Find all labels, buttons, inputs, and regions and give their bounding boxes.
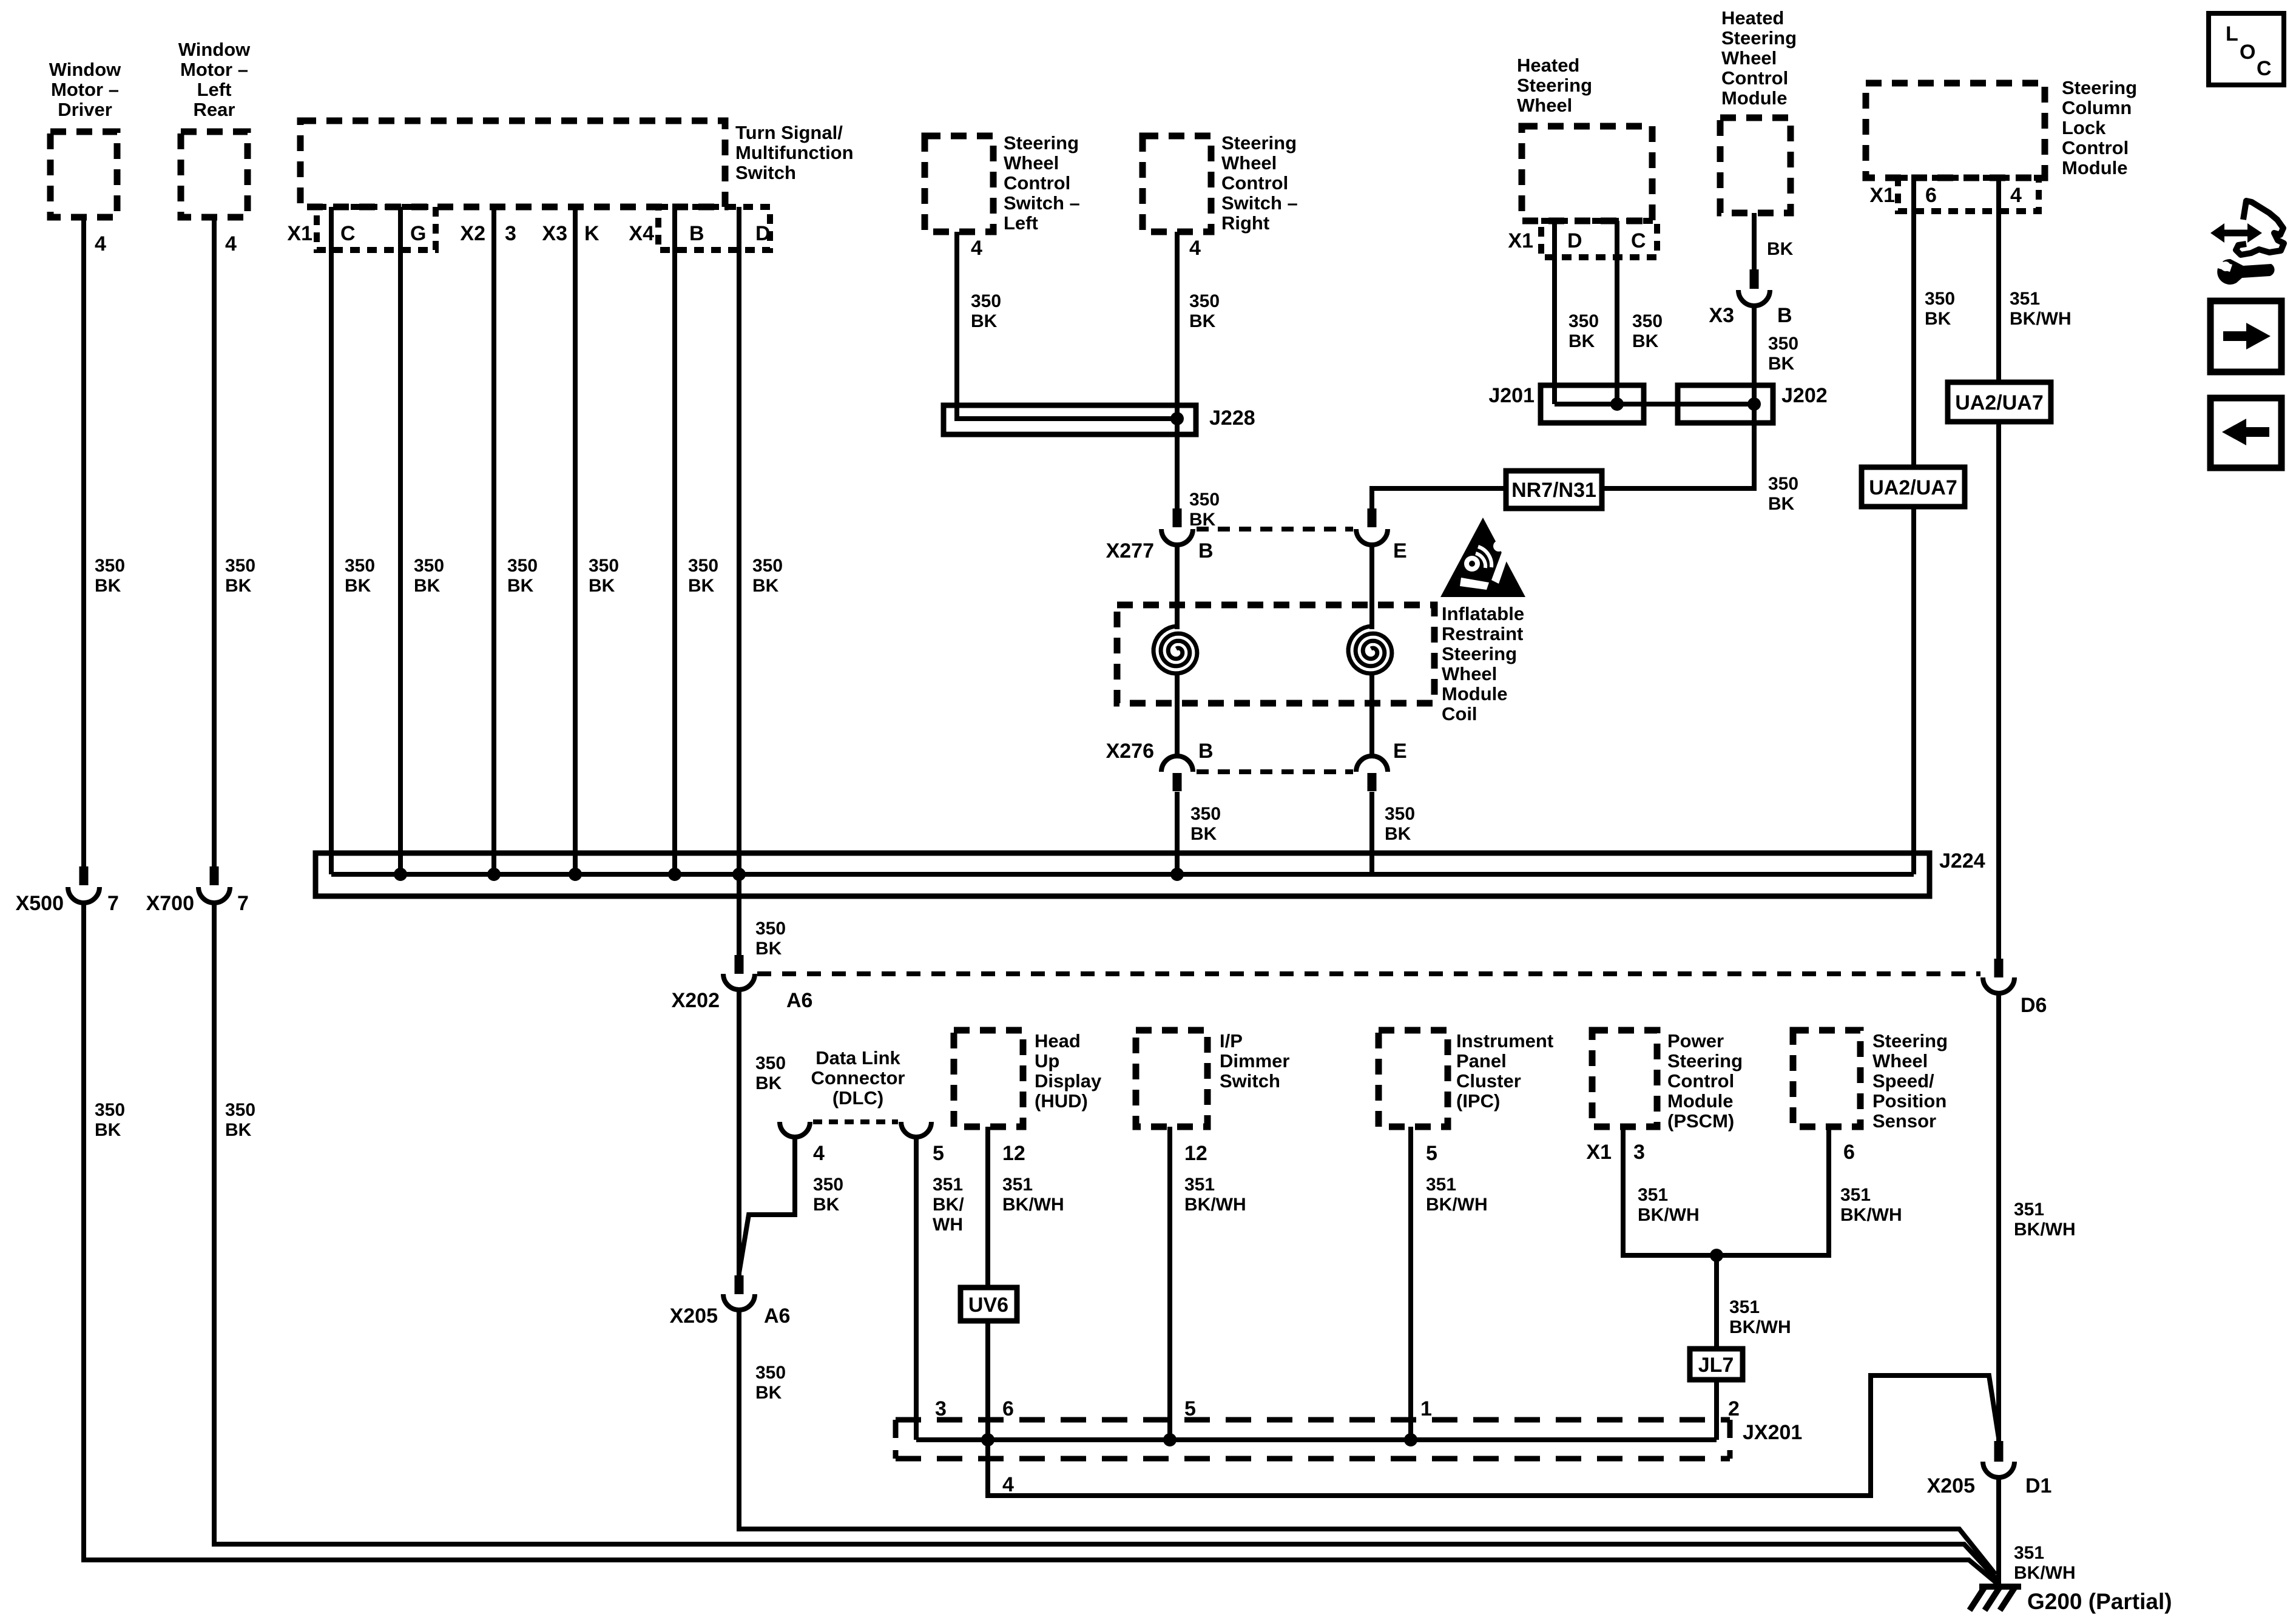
svg-text:X276: X276 — [1106, 740, 1154, 763]
svg-text:E: E — [1393, 740, 1407, 763]
svg-text:BK: BK — [95, 1120, 121, 1140]
svg-text:351: 351 — [1840, 1185, 1871, 1205]
svg-text:BK/WH: BK/WH — [1002, 1195, 1064, 1215]
svg-text:Sensor: Sensor — [1872, 1110, 1936, 1132]
svg-text:(DLC): (DLC) — [832, 1087, 883, 1109]
svg-text:2: 2 — [1728, 1397, 1740, 1420]
svg-text:X500: X500 — [16, 892, 64, 915]
svg-text:Column: Column — [2062, 97, 2132, 118]
svg-text:4: 4 — [1189, 237, 1201, 260]
svg-text:Window: Window — [49, 59, 121, 80]
svg-text:B: B — [1198, 740, 1214, 763]
svg-text:UV6: UV6 — [968, 1294, 1008, 1317]
svg-text:X205: X205 — [670, 1304, 718, 1328]
svg-text:350: 350 — [225, 1100, 255, 1120]
svg-text:Rear: Rear — [194, 99, 235, 120]
svg-text:BK: BK — [414, 576, 441, 596]
svg-text:B: B — [689, 222, 704, 245]
svg-text:X3: X3 — [542, 222, 567, 245]
svg-text:350: 350 — [414, 556, 444, 576]
svg-text:(PSCM): (PSCM) — [1667, 1110, 1734, 1132]
svg-text:Panel: Panel — [1456, 1050, 1507, 1072]
svg-text:BK: BK — [688, 576, 715, 596]
svg-text:Head: Head — [1035, 1030, 1081, 1051]
svg-text:Instrument: Instrument — [1456, 1030, 1553, 1051]
svg-text:350: 350 — [971, 291, 1001, 311]
svg-text:350: 350 — [1190, 804, 1221, 824]
svg-text:Module: Module — [2062, 157, 2128, 178]
svg-text:BK/WH: BK/WH — [2014, 1563, 2076, 1583]
svg-text:Connector: Connector — [811, 1067, 905, 1088]
svg-text:BK: BK — [813, 1195, 840, 1215]
svg-text:350: 350 — [755, 919, 786, 939]
svg-text:Multifunction: Multifunction — [735, 142, 854, 163]
svg-text:BK: BK — [755, 939, 782, 959]
svg-text:X205: X205 — [1927, 1474, 1975, 1497]
svg-text:351: 351 — [1426, 1175, 1456, 1195]
svg-text:6: 6 — [1002, 1397, 1014, 1420]
svg-text:351: 351 — [1638, 1185, 1668, 1205]
svg-text:Control: Control — [1221, 172, 1288, 194]
svg-text:4: 4 — [971, 237, 982, 260]
svg-text:Display: Display — [1035, 1070, 1102, 1092]
svg-text:BK: BK — [1190, 824, 1217, 844]
svg-text:X1: X1 — [287, 222, 312, 245]
svg-text:350: 350 — [1385, 804, 1415, 824]
svg-text:X277: X277 — [1106, 539, 1154, 562]
svg-text:J202: J202 — [1781, 384, 1828, 407]
svg-text:WH: WH — [933, 1215, 963, 1235]
svg-text:Lock: Lock — [2062, 117, 2106, 138]
svg-text:Inflatable: Inflatable — [1442, 603, 1524, 624]
svg-text:Position: Position — [1872, 1090, 1947, 1112]
svg-text:BK/WH: BK/WH — [1184, 1195, 1246, 1215]
svg-text:BK: BK — [971, 311, 998, 331]
svg-text:J201: J201 — [1488, 384, 1535, 407]
svg-text:Wheel: Wheel — [1221, 152, 1277, 174]
svg-text:Module: Module — [1442, 683, 1508, 704]
svg-text:G: G — [410, 222, 426, 245]
svg-text:L: L — [2226, 22, 2238, 46]
svg-text:D: D — [1567, 229, 1582, 252]
svg-text:Motor –: Motor – — [180, 59, 248, 80]
svg-text:Power: Power — [1667, 1030, 1724, 1051]
svg-text:E: E — [1393, 539, 1407, 562]
svg-text:BK: BK — [1385, 824, 1411, 844]
svg-text:A6: A6 — [764, 1304, 790, 1328]
svg-text:C: C — [340, 222, 356, 245]
svg-text:BK: BK — [507, 576, 534, 596]
svg-text:BK: BK — [1768, 494, 1795, 514]
svg-text:Module: Module — [1721, 87, 1788, 109]
svg-text:J224: J224 — [1939, 849, 1985, 872]
svg-text:BK: BK — [755, 1073, 782, 1093]
svg-text:J228: J228 — [1209, 407, 1255, 430]
svg-text:351: 351 — [933, 1175, 963, 1195]
svg-text:Control: Control — [1667, 1070, 1734, 1092]
svg-text:350: 350 — [95, 556, 125, 576]
svg-text:350: 350 — [755, 1363, 786, 1383]
svg-text:350: 350 — [752, 556, 783, 576]
svg-text:(HUD): (HUD) — [1035, 1090, 1088, 1112]
svg-text:Steering: Steering — [1517, 75, 1592, 96]
svg-text:351: 351 — [2014, 1543, 2044, 1563]
svg-text:BK: BK — [589, 576, 615, 596]
svg-text:Module: Module — [1667, 1090, 1734, 1112]
svg-text:1: 1 — [1420, 1397, 1432, 1420]
svg-text:UA2/UA7: UA2/UA7 — [1869, 476, 1957, 499]
svg-text:Control: Control — [2062, 137, 2129, 158]
svg-text:X202: X202 — [672, 989, 720, 1012]
svg-text:3: 3 — [505, 222, 516, 245]
svg-text:Wheel: Wheel — [1517, 95, 1572, 116]
svg-text:4: 4 — [225, 232, 237, 255]
svg-text:Left: Left — [1004, 212, 1038, 234]
svg-text:351: 351 — [2010, 289, 2040, 309]
svg-text:350: 350 — [1568, 311, 1599, 331]
svg-text:BK: BK — [95, 576, 121, 596]
svg-text:350: 350 — [95, 1100, 125, 1120]
svg-text:BK/WH: BK/WH — [1638, 1205, 1700, 1225]
svg-text:350: 350 — [755, 1053, 786, 1073]
svg-text:6: 6 — [1843, 1141, 1855, 1164]
svg-text:BK/: BK/ — [933, 1195, 964, 1215]
svg-text:Steering: Steering — [1721, 27, 1797, 49]
svg-text:X3: X3 — [1709, 304, 1734, 327]
svg-text:Speed/: Speed/ — [1872, 1070, 1934, 1092]
svg-text:I/P: I/P — [1220, 1030, 1243, 1051]
svg-text:D1: D1 — [2025, 1474, 2051, 1497]
svg-text:Right: Right — [1221, 212, 1269, 234]
svg-text:Steering: Steering — [1221, 132, 1297, 154]
svg-text:350: 350 — [1925, 289, 1955, 309]
svg-text:BK/WH: BK/WH — [1840, 1205, 1902, 1225]
svg-text:BK: BK — [1568, 331, 1595, 351]
svg-text:350: 350 — [1768, 474, 1798, 494]
svg-text:BK/WH: BK/WH — [1426, 1195, 1488, 1215]
svg-text:3: 3 — [1633, 1141, 1645, 1164]
svg-text:350: 350 — [813, 1175, 843, 1195]
svg-text:12: 12 — [1184, 1142, 1207, 1165]
svg-text:BK: BK — [1925, 309, 1951, 329]
svg-text:351: 351 — [2014, 1200, 2044, 1220]
svg-text:Heated: Heated — [1721, 7, 1784, 29]
svg-text:4: 4 — [95, 232, 106, 255]
svg-text:351: 351 — [1184, 1175, 1215, 1195]
svg-text:7: 7 — [237, 892, 249, 915]
svg-text:BK: BK — [1189, 510, 1216, 530]
svg-text:350: 350 — [688, 556, 718, 576]
svg-text:Steering: Steering — [1004, 132, 1079, 154]
svg-text:BK/WH: BK/WH — [2010, 309, 2071, 329]
svg-text:X1: X1 — [1869, 184, 1895, 207]
svg-text:NR7/N31: NR7/N31 — [1511, 479, 1596, 502]
svg-text:D: D — [755, 222, 771, 245]
svg-text:BK: BK — [225, 576, 252, 596]
svg-text:5: 5 — [933, 1142, 944, 1165]
svg-text:4: 4 — [813, 1142, 825, 1165]
svg-text:Steering: Steering — [2062, 77, 2137, 98]
svg-text:A6: A6 — [786, 989, 812, 1012]
svg-text:BK: BK — [755, 1383, 782, 1403]
svg-text:350: 350 — [1768, 334, 1798, 354]
svg-text:3: 3 — [935, 1397, 947, 1420]
svg-text:5: 5 — [1426, 1142, 1437, 1165]
svg-text:Wheel: Wheel — [1872, 1050, 1928, 1072]
svg-text:4: 4 — [1002, 1473, 1014, 1496]
svg-text:Control: Control — [1004, 172, 1070, 194]
svg-text:Up: Up — [1035, 1050, 1059, 1072]
svg-text:Turn Signal/: Turn Signal/ — [735, 122, 843, 143]
svg-text:6: 6 — [1925, 184, 1937, 207]
svg-text:350: 350 — [225, 556, 255, 576]
svg-text:(IPC): (IPC) — [1456, 1090, 1500, 1112]
svg-text:K: K — [584, 222, 599, 245]
svg-text:350: 350 — [345, 556, 375, 576]
svg-text:12: 12 — [1002, 1142, 1025, 1165]
svg-text:Cluster: Cluster — [1456, 1070, 1521, 1092]
svg-text:BK: BK — [1632, 331, 1659, 351]
svg-text:4: 4 — [2010, 184, 2022, 207]
svg-text:BK: BK — [1767, 239, 1794, 259]
svg-text:B: B — [1198, 539, 1214, 562]
svg-text:JL7: JL7 — [1698, 1354, 1734, 1377]
svg-text:Control: Control — [1721, 67, 1788, 89]
svg-text:Switch: Switch — [735, 162, 796, 183]
svg-text:Coil: Coil — [1442, 703, 1477, 724]
svg-text:X4: X4 — [629, 222, 654, 245]
svg-text:BK: BK — [1189, 311, 1216, 331]
svg-text:BK: BK — [752, 576, 779, 596]
svg-text:BK/WH: BK/WH — [2014, 1220, 2076, 1240]
svg-text:350: 350 — [1632, 311, 1663, 331]
svg-text:Steering: Steering — [1442, 643, 1517, 664]
svg-text:Window: Window — [178, 39, 251, 60]
svg-text:5: 5 — [1184, 1397, 1196, 1420]
svg-text:O: O — [2240, 41, 2255, 64]
svg-text:X700: X700 — [146, 892, 194, 915]
svg-text:Wheel: Wheel — [1442, 663, 1497, 684]
svg-text:Driver: Driver — [58, 99, 112, 120]
svg-text:BK: BK — [1768, 354, 1795, 374]
svg-text:351: 351 — [1729, 1297, 1760, 1317]
svg-text:7: 7 — [107, 892, 119, 915]
svg-text:Dimmer: Dimmer — [1220, 1050, 1289, 1072]
svg-text:X2: X2 — [460, 222, 485, 245]
svg-text:350: 350 — [1189, 490, 1220, 510]
svg-text:Wheel: Wheel — [1004, 152, 1059, 174]
svg-text:Motor –: Motor – — [51, 79, 119, 100]
svg-text:Heated: Heated — [1517, 55, 1579, 76]
svg-text:Steering: Steering — [1872, 1030, 1948, 1051]
svg-text:350: 350 — [1189, 291, 1220, 311]
svg-text:JX201: JX201 — [1743, 1421, 1802, 1444]
svg-text:C: C — [1631, 229, 1646, 252]
svg-text:Left: Left — [197, 79, 232, 100]
svg-text:Switch –: Switch – — [1004, 192, 1080, 214]
svg-text:351: 351 — [1002, 1175, 1033, 1195]
svg-text:X1: X1 — [1586, 1141, 1612, 1164]
svg-text:BK: BK — [345, 576, 371, 596]
svg-text:B: B — [1777, 304, 1792, 327]
svg-text:Wheel: Wheel — [1721, 47, 1777, 69]
svg-text:Switch: Switch — [1220, 1070, 1280, 1092]
svg-text:Data Link: Data Link — [815, 1047, 900, 1068]
svg-text:X1: X1 — [1508, 229, 1533, 252]
svg-text:Restraint: Restraint — [1442, 623, 1523, 644]
svg-text:UA2/UA7: UA2/UA7 — [1955, 391, 2043, 414]
svg-text:BK/WH: BK/WH — [1729, 1317, 1791, 1337]
svg-text:350: 350 — [589, 556, 619, 576]
svg-text:350: 350 — [507, 556, 538, 576]
svg-text:D6: D6 — [2021, 994, 2047, 1017]
svg-text:G200 (Partial): G200 (Partial) — [2027, 1589, 2172, 1614]
svg-text:Steering: Steering — [1667, 1050, 1743, 1072]
svg-text:Switch –: Switch – — [1221, 192, 1298, 214]
svg-text:C: C — [2257, 57, 2272, 80]
svg-text:BK: BK — [225, 1120, 252, 1140]
